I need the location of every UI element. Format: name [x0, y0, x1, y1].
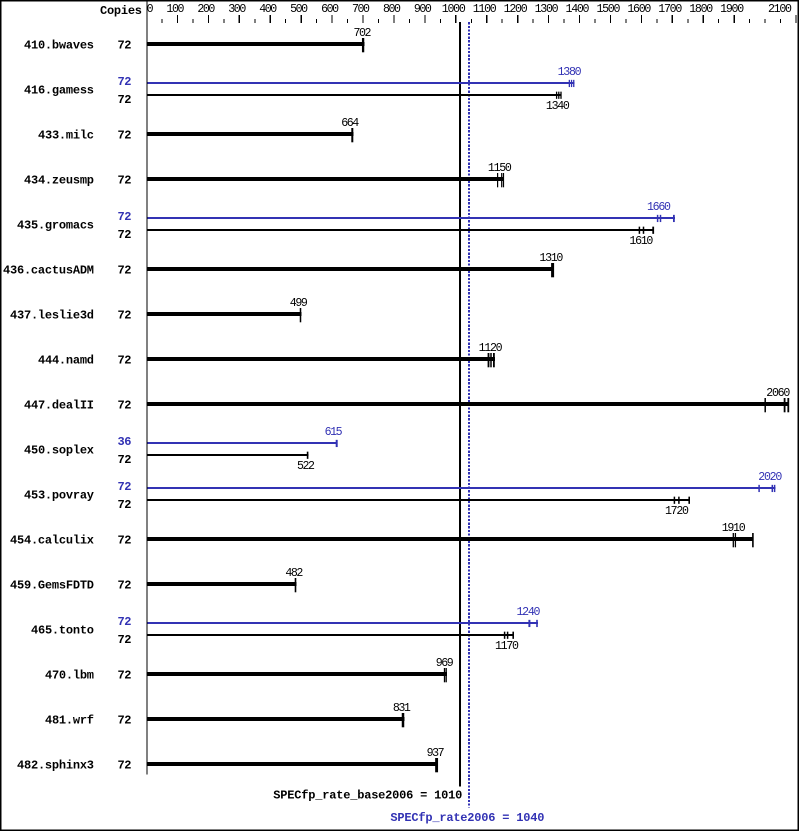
svg-text:615: 615 — [325, 426, 343, 439]
svg-text:522: 522 — [297, 460, 315, 473]
svg-text:434.zeusmp: 434.zeusmp — [24, 174, 94, 188]
svg-text:900: 900 — [414, 3, 432, 16]
svg-text:1120: 1120 — [479, 342, 503, 355]
svg-text:482.sphinx3: 482.sphinx3 — [17, 759, 94, 773]
svg-text:454.calculix: 454.calculix — [10, 534, 94, 548]
svg-text:1610: 1610 — [629, 235, 653, 248]
svg-text:459.GemsFDTD: 459.GemsFDTD — [10, 579, 94, 593]
svg-text:1500: 1500 — [596, 3, 620, 16]
svg-text:1400: 1400 — [566, 3, 590, 16]
svg-text:72: 72 — [118, 669, 132, 683]
svg-text:1240: 1240 — [517, 606, 541, 619]
svg-text:72: 72 — [118, 498, 132, 512]
svg-text:100: 100 — [166, 3, 184, 16]
svg-text:72: 72 — [118, 399, 132, 413]
svg-text:937: 937 — [427, 747, 445, 760]
svg-text:72: 72 — [118, 579, 132, 593]
svg-text:831: 831 — [393, 702, 411, 715]
svg-text:1380: 1380 — [558, 66, 582, 79]
svg-text:500: 500 — [290, 3, 308, 16]
svg-text:72: 72 — [118, 759, 132, 773]
svg-text:72: 72 — [118, 534, 132, 548]
svg-text:200: 200 — [197, 3, 215, 16]
svg-text:72: 72 — [118, 129, 132, 143]
svg-text:700: 700 — [352, 3, 370, 16]
svg-text:1340: 1340 — [546, 100, 570, 113]
svg-text:400: 400 — [259, 3, 277, 16]
svg-text:444.namd: 444.namd — [38, 354, 94, 368]
svg-text:1800: 1800 — [689, 3, 713, 16]
svg-text:300: 300 — [228, 3, 246, 16]
svg-text:447.dealII: 447.dealII — [24, 399, 94, 413]
svg-text:436.cactusADM: 436.cactusADM — [3, 264, 94, 278]
svg-text:600: 600 — [321, 3, 339, 16]
svg-text:416.gamess: 416.gamess — [24, 84, 94, 98]
svg-text:410.bwaves: 410.bwaves — [24, 39, 94, 53]
svg-text:1200: 1200 — [504, 3, 528, 16]
svg-text:72: 72 — [118, 453, 132, 467]
svg-text:72: 72 — [118, 309, 132, 323]
svg-text:2020: 2020 — [758, 471, 782, 484]
svg-text:465.tonto: 465.tonto — [31, 624, 94, 638]
svg-text:72: 72 — [118, 210, 132, 224]
svg-text:437.leslie3d: 437.leslie3d — [10, 309, 94, 323]
svg-text:72: 72 — [118, 480, 132, 494]
svg-text:Copies: Copies — [100, 4, 142, 18]
svg-text:470.lbm: 470.lbm — [45, 669, 94, 683]
svg-text:1300: 1300 — [535, 3, 559, 16]
svg-text:1660: 1660 — [647, 201, 671, 214]
svg-text:SPECfp_rate_base2006 = 1010: SPECfp_rate_base2006 = 1010 — [273, 789, 462, 803]
svg-text:72: 72 — [118, 39, 132, 53]
svg-text:702: 702 — [354, 27, 372, 40]
svg-text:72: 72 — [118, 714, 132, 728]
svg-text:1720: 1720 — [665, 505, 689, 518]
svg-text:1600: 1600 — [627, 3, 651, 16]
svg-text:72: 72 — [118, 174, 132, 188]
svg-text:0: 0 — [147, 3, 154, 16]
svg-text:1310: 1310 — [539, 252, 563, 265]
svg-text:72: 72 — [118, 228, 132, 242]
svg-text:482: 482 — [285, 567, 303, 580]
svg-text:453.povray: 453.povray — [24, 489, 94, 503]
svg-text:72: 72 — [118, 264, 132, 278]
svg-text:72: 72 — [118, 75, 132, 89]
svg-text:1150: 1150 — [488, 162, 512, 175]
svg-text:450.soplex: 450.soplex — [24, 444, 94, 458]
svg-text:2100: 2100 — [768, 3, 792, 16]
svg-text:72: 72 — [118, 354, 132, 368]
svg-text:1000: 1000 — [442, 3, 466, 16]
svg-text:72: 72 — [118, 615, 132, 629]
svg-text:499: 499 — [290, 297, 308, 310]
svg-text:433.milc: 433.milc — [38, 129, 94, 143]
svg-text:72: 72 — [118, 633, 132, 647]
svg-text:481.wrf: 481.wrf — [45, 714, 94, 728]
svg-text:1910: 1910 — [722, 522, 746, 535]
svg-text:2060: 2060 — [766, 387, 790, 400]
svg-text:969: 969 — [436, 657, 454, 670]
svg-text:1100: 1100 — [473, 3, 497, 16]
svg-text:664: 664 — [341, 117, 359, 130]
svg-text:1900: 1900 — [720, 3, 744, 16]
svg-text:435.gromacs: 435.gromacs — [17, 219, 94, 233]
svg-text:1700: 1700 — [658, 3, 682, 16]
svg-text:36: 36 — [118, 435, 132, 449]
svg-text:1170: 1170 — [495, 640, 519, 653]
svg-text:SPECfp_rate2006 = 1040: SPECfp_rate2006 = 1040 — [390, 811, 544, 825]
svg-text:800: 800 — [383, 3, 401, 16]
svg-text:72: 72 — [118, 93, 132, 107]
